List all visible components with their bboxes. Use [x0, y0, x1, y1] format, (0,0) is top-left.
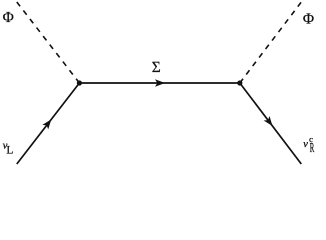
svg-text:L: L — [6, 144, 13, 156]
svg-text:R: R — [310, 140, 315, 155]
svg-text:ν: ν — [303, 139, 308, 150]
vertex (right) — [237, 80, 242, 85]
vertex (left) — [77, 80, 82, 85]
fermion line nu_L (incoming, bottom-left) — [17, 83, 80, 164]
scalar propagator Phi (top-right dashed line) — [240, 2, 301, 83]
arrow on Sigma propagator — [155, 79, 165, 86]
svg-text:Φ: Φ — [3, 9, 14, 26]
svg-text:Σ: Σ — [152, 59, 161, 76]
arrow on nu_R^c line — [264, 116, 273, 126]
svg-text:Φ: Φ — [303, 11, 314, 28]
fermion propagator Sigma (horizontal line) — [79, 82, 239, 84]
scalar propagator Phi (top-left dashed line) — [17, 2, 80, 83]
arrow on nu_L line — [42, 119, 51, 129]
fermion line nu_R^c (outgoing, bottom-right) — [240, 83, 301, 164]
